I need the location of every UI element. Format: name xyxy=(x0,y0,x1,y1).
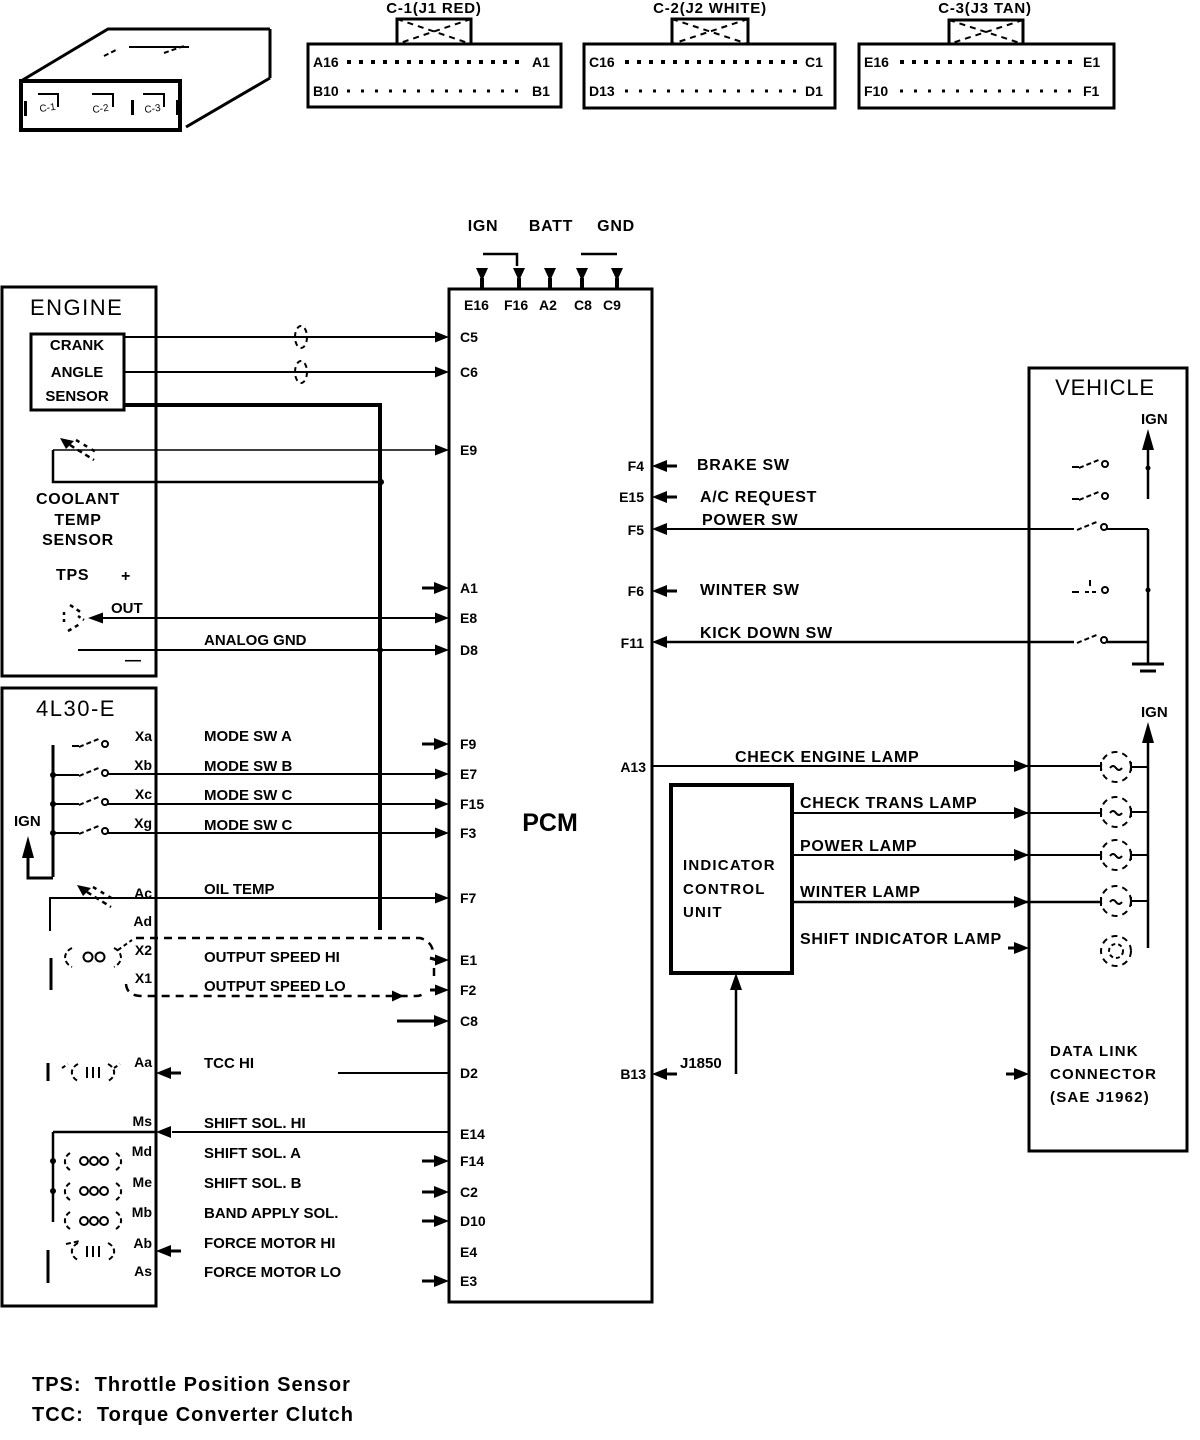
svg-text:POWER LAMP: POWER LAMP xyxy=(800,838,917,855)
svg-text:TEMP: TEMP xyxy=(54,512,101,529)
shift indicator arrow stub xyxy=(1008,942,1029,954)
svg-text:C8: C8 xyxy=(574,297,592,313)
svg-text:CHECK ENGINE LAMP: CHECK ENGINE LAMP xyxy=(735,749,919,766)
indicator control unit box xyxy=(671,785,792,973)
svg-text:Xc: Xc xyxy=(135,786,152,802)
svg-text:(SAE J1962): (SAE J1962) xyxy=(1050,1089,1150,1106)
IGN bridge wire xyxy=(483,254,517,266)
svg-text:OUTPUT SPEED HI: OUTPUT SPEED HI xyxy=(204,949,340,966)
svg-text:D10: D10 xyxy=(460,1213,486,1229)
wire winter lamp to ign xyxy=(1131,900,1148,902)
svg-text:Mb: Mb xyxy=(132,1204,152,1220)
svg-text:Xa: Xa xyxy=(135,728,152,744)
arrowhead power lamp xyxy=(1014,849,1029,861)
shift solenoid A coil xyxy=(50,1153,121,1170)
svg-text:BAND APPLY SOL.: BAND APPLY SOL. xyxy=(204,1205,338,1222)
IGN feed arrow vehicle xyxy=(1142,429,1154,499)
crank angle sensor xyxy=(31,334,124,410)
wire F5 to power switch xyxy=(666,528,1074,530)
dashed shield output speed pair xyxy=(126,938,434,996)
winter lamp xyxy=(1101,886,1131,916)
svg-text:—: — xyxy=(125,652,142,669)
mode switch bus xyxy=(52,745,55,877)
connector C-1 front label xyxy=(24,94,58,116)
svg-text:SHIFT SOL. HI: SHIFT SOL. HI xyxy=(204,1115,306,1132)
svg-text:BRAKE SW: BRAKE SW xyxy=(697,457,790,474)
arrowhead into F7 xyxy=(435,893,449,904)
svg-text:ANGLE: ANGLE xyxy=(51,364,104,381)
connector C-3 front label xyxy=(143,94,179,116)
twisted pair loop on C5 wire xyxy=(295,326,307,348)
svg-text:E7: E7 xyxy=(460,766,477,782)
GND bar xyxy=(581,253,617,256)
module front face xyxy=(21,81,180,130)
wire icu to winter lamp xyxy=(792,901,1101,904)
svg-text:D13: D13 xyxy=(589,83,615,99)
F4 stub arrow xyxy=(652,460,677,472)
svg-text:IGN: IGN xyxy=(1141,704,1168,721)
svg-text:TCC HI: TCC HI xyxy=(204,1055,254,1072)
arrowhead into E8 xyxy=(435,613,449,624)
svg-text:F1: F1 xyxy=(1083,83,1100,99)
small arrow end of shield xyxy=(392,991,404,1002)
svg-text:Md: Md xyxy=(132,1143,152,1159)
svg-text:COOLANT: COOLANT xyxy=(36,491,120,508)
band apply solenoid coil xyxy=(65,1212,121,1229)
4L30-E box xyxy=(2,688,156,1306)
supply pin C8 arrow xyxy=(576,268,588,289)
wire crank sensor to C6 xyxy=(124,371,437,373)
svg-text:POWER SW: POWER SW xyxy=(702,512,798,529)
svg-text:E3: E3 xyxy=(460,1273,477,1289)
TCC solenoid coil xyxy=(48,1063,120,1081)
Ms arrow at box edge xyxy=(156,1126,171,1138)
shield drain wire (thick) xyxy=(124,405,380,930)
wire check trans lamp to ign xyxy=(1131,811,1148,813)
svg-text:A/C REQUEST: A/C REQUEST xyxy=(700,489,817,506)
wire kick down to ground xyxy=(1107,641,1148,644)
svg-text:PCM: PCM xyxy=(522,809,578,837)
svg-text:Ad: Ad xyxy=(133,913,152,929)
check engine lamp xyxy=(1101,752,1131,782)
svg-text:FORCE MOTOR LO: FORCE MOTOR LO xyxy=(204,1264,342,1281)
supply pin A2 arrow xyxy=(544,268,556,289)
E15 stub arrow xyxy=(652,491,677,503)
D10 stub arrow xyxy=(422,1215,449,1227)
PCM box xyxy=(449,289,652,1302)
connector C-1(J1 RED) pinout xyxy=(308,0,561,107)
C2 stub arrow xyxy=(422,1186,449,1198)
junction shield/coolant return xyxy=(378,479,384,485)
svg-text:Ms: Ms xyxy=(133,1113,153,1129)
junction brake ign xyxy=(1146,466,1151,471)
svg-text:ANALOG GND: ANALOG GND xyxy=(204,632,307,649)
wire Xg to F3 xyxy=(108,832,437,834)
svg-text:Ab: Ab xyxy=(133,1235,152,1251)
shift solenoid bus xyxy=(53,1132,156,1222)
wire TPS OUT to E8 xyxy=(102,617,437,619)
svg-text:WINTER LAMP: WINTER LAMP xyxy=(800,884,921,901)
svg-text:A16: A16 xyxy=(313,54,339,70)
svg-text:J1850: J1850 xyxy=(680,1055,722,1072)
supply pin C9 arrow xyxy=(611,268,623,289)
svg-text:C2: C2 xyxy=(460,1184,478,1200)
wire analog gnd to D8 xyxy=(78,649,437,651)
svg-text:F9: F9 xyxy=(460,736,477,752)
svg-text:CONNECTOR: CONNECTOR xyxy=(1050,1066,1157,1083)
coolant temp sensor label xyxy=(36,491,120,549)
arrowhead into F15 xyxy=(435,799,449,810)
F14 stub arrow xyxy=(422,1155,449,1167)
arrowhead into F2 xyxy=(435,985,449,996)
svg-text:TCC: Torque Converter Clutch: TCC: Torque Converter Clutch xyxy=(32,1404,354,1426)
svg-text:SENSOR: SENSOR xyxy=(42,532,114,549)
svg-text:IGN: IGN xyxy=(468,218,499,235)
svg-text:MODE SW C: MODE SW C xyxy=(204,817,292,834)
svg-text:X2: X2 xyxy=(135,942,152,958)
svg-text:F11: F11 xyxy=(621,635,645,651)
svg-text:INDICATOR: INDICATOR xyxy=(683,857,776,874)
svg-text:DATA LINK: DATA LINK xyxy=(1050,1043,1139,1060)
junction shield/analog gnd xyxy=(377,647,383,653)
stem E1 xyxy=(430,958,437,960)
DATA LINK CONNECTOR label xyxy=(1050,1043,1157,1106)
svg-text:C-2(J2 WHITE): C-2(J2 WHITE) xyxy=(653,0,767,17)
VEHICLE box xyxy=(1029,368,1187,1151)
svg-text:F16: F16 xyxy=(504,297,528,313)
svg-text:As: As xyxy=(134,1263,152,1279)
svg-text:VEHICLE: VEHICLE xyxy=(1055,375,1155,400)
Aa arrow at box edge xyxy=(156,1067,181,1079)
svg-text:MODE SW A: MODE SW A xyxy=(204,728,292,745)
svg-text:F7: F7 xyxy=(460,890,477,906)
F11 arrowhead xyxy=(652,636,667,648)
svg-text:C16: C16 xyxy=(589,54,615,70)
svg-text:MODE SW C: MODE SW C xyxy=(204,787,292,804)
D2 wire from TCC xyxy=(338,1072,449,1074)
svg-text:GND: GND xyxy=(597,218,635,235)
F6 stub arrow xyxy=(652,585,677,597)
shift solenoid B coil xyxy=(50,1183,121,1200)
left pin labels xyxy=(460,329,486,1289)
svg-text:C9: C9 xyxy=(603,297,621,313)
svg-text:B10: B10 xyxy=(313,83,339,99)
arrowhead into E1 xyxy=(435,955,449,966)
svg-text:E8: E8 xyxy=(460,610,477,626)
svg-text:OUT: OUT xyxy=(111,600,143,617)
mode switch Xg xyxy=(50,825,108,836)
right pin labels xyxy=(619,458,646,1082)
svg-text:IGN: IGN xyxy=(1141,411,1168,428)
svg-text:E15: E15 xyxy=(619,489,644,505)
arrowhead into C5 xyxy=(435,332,449,343)
oil temp sensor thermistor xyxy=(77,885,113,907)
svg-text:OUTPUT SPEED LO: OUTPUT SPEED LO xyxy=(204,978,346,995)
C8 stub wire xyxy=(397,1015,449,1027)
svg-text:4L30-E: 4L30-E xyxy=(36,696,116,721)
svg-text:X1: X1 xyxy=(135,970,152,986)
svg-text:UNIT: UNIT xyxy=(683,904,723,921)
svg-text:C-2: C-2 xyxy=(92,103,110,116)
svg-text:A13: A13 xyxy=(620,759,646,775)
A1 stub arrow xyxy=(422,582,449,594)
svg-text:E4: E4 xyxy=(460,1244,477,1260)
junction winter ign xyxy=(1146,588,1151,593)
winter switch xyxy=(1072,580,1108,593)
svg-text:F15: F15 xyxy=(460,796,484,812)
svg-text:BATT: BATT xyxy=(529,218,573,235)
mode switch Xc xyxy=(50,796,108,807)
power lamp xyxy=(1101,840,1131,870)
ENGINE box xyxy=(2,287,156,676)
svg-text:WINTER SW: WINTER SW xyxy=(700,582,800,599)
svg-text:ENGINE: ENGINE xyxy=(30,295,123,320)
arrowhead OUT toward TPS xyxy=(88,613,103,624)
svg-text:B1: B1 xyxy=(532,83,550,99)
svg-text:SENSOR: SENSOR xyxy=(45,388,109,405)
svg-text:E16: E16 xyxy=(464,297,489,313)
coolant sensor return wire xyxy=(53,450,382,482)
IGN arrow 4L30E xyxy=(22,836,53,878)
power switch xyxy=(1077,521,1107,530)
coolant temp sensor thermistor xyxy=(60,438,96,460)
svg-text:F10: F10 xyxy=(864,83,888,99)
svg-text:C1: C1 xyxy=(805,54,823,70)
shift indicator lamp xyxy=(1101,936,1131,966)
svg-text:Me: Me xyxy=(133,1174,153,1190)
F9 stub arrow xyxy=(422,738,449,750)
ac request switch xyxy=(1072,491,1108,500)
svg-text:Xb: Xb xyxy=(134,757,152,773)
force motor coil xyxy=(48,1241,114,1283)
connector C-3(J3 TAN) pinout xyxy=(859,0,1114,108)
arrowhead into C6 xyxy=(435,367,449,378)
module top face xyxy=(21,29,270,81)
stem F2 xyxy=(430,989,437,992)
wire coolant sensor to E9 xyxy=(53,449,437,451)
svg-text:OIL TEMP: OIL TEMP xyxy=(204,881,275,898)
svg-text:MODE SW B: MODE SW B xyxy=(204,758,292,775)
kick down switch xyxy=(1077,634,1107,643)
svg-text:A2: A2 xyxy=(539,297,557,313)
supply pin E16 arrow xyxy=(476,268,488,289)
module top lid marking xyxy=(129,46,189,48)
svg-text:F4: F4 xyxy=(628,458,645,474)
module right face xyxy=(186,29,270,127)
check trans lamp xyxy=(1101,797,1131,827)
svg-text:IGN: IGN xyxy=(14,813,41,830)
svg-text:C6: C6 xyxy=(460,364,478,380)
mode switch Xb xyxy=(50,767,108,778)
svg-text:E1: E1 xyxy=(1083,54,1100,70)
arrowhead into D8 xyxy=(435,645,449,656)
svg-text:TPS: TPS xyxy=(56,567,89,584)
connector C-2 front label xyxy=(92,94,134,116)
F5 arrowhead xyxy=(652,523,667,535)
svg-text:E16: E16 xyxy=(864,54,889,70)
arrowhead into E9 xyxy=(435,445,449,456)
svg-text:+: + xyxy=(121,568,131,585)
E14 wire shift sol hi xyxy=(172,1131,449,1133)
svg-text:F3: F3 xyxy=(460,825,477,841)
wire F11 to kick down switch xyxy=(666,641,1074,644)
arrowhead into F3 xyxy=(435,828,449,839)
twisted pair loop on C6 wire xyxy=(295,361,307,383)
ign line power to ground xyxy=(1147,529,1150,663)
wire A13 to check engine lamp xyxy=(652,765,1101,767)
svg-text:C-3: C-3 xyxy=(144,103,162,116)
arrowhead winter lamp xyxy=(1014,896,1029,908)
J1850 wire to icu xyxy=(730,973,742,1074)
svg-text:SHIFT INDICATOR LAMP: SHIFT INDICATOR LAMP xyxy=(800,931,1002,948)
svg-text:CHECK TRANS LAMP: CHECK TRANS LAMP xyxy=(800,795,977,812)
wire icu to check trans lamp xyxy=(792,812,1101,814)
svg-text:E1: E1 xyxy=(460,952,477,968)
svg-text:KICK DOWN SW: KICK DOWN SW xyxy=(700,625,833,642)
svg-text:B13: B13 xyxy=(620,1066,646,1082)
svg-text:F6: F6 xyxy=(628,583,645,599)
svg-text:D1: D1 xyxy=(805,83,823,99)
svg-text:C8: C8 xyxy=(460,1013,478,1029)
E3 stub arrow xyxy=(422,1275,449,1287)
connector C-2(J2 WHITE) pinout xyxy=(584,0,835,108)
svg-text:CRANK: CRANK xyxy=(50,337,104,354)
svg-text:C5: C5 xyxy=(460,329,478,345)
wire crank sensor to C5 xyxy=(124,336,437,338)
wire Xc to F15 xyxy=(108,803,437,805)
mode switch Xa xyxy=(72,738,108,747)
Ab arrow at box edge xyxy=(156,1245,181,1257)
svg-text:Xg: Xg xyxy=(134,815,152,831)
svg-text:A1: A1 xyxy=(532,54,550,70)
DLC arrow stub xyxy=(1006,1068,1029,1080)
TPS wiper arrow xyxy=(64,605,84,631)
PCM module 3D view xyxy=(21,29,270,130)
svg-text:F5: F5 xyxy=(628,522,645,538)
svg-text:E14: E14 xyxy=(460,1126,485,1142)
ground symbol xyxy=(1132,664,1164,671)
svg-text:CONTROL: CONTROL xyxy=(683,881,766,898)
IGN feed arrow lamps xyxy=(1142,722,1154,948)
arrowhead check trans xyxy=(1014,807,1029,819)
svg-text:C-1(J1 RED): C-1(J1 RED) xyxy=(386,0,481,17)
output speed sensor coil xyxy=(51,940,132,990)
wire icu to power lamp xyxy=(792,854,1101,856)
svg-text:C-1: C-1 xyxy=(39,102,57,115)
wire check engine lamp to ign xyxy=(1131,766,1148,768)
svg-text:SHIFT SOL. B: SHIFT SOL. B xyxy=(204,1175,302,1192)
brake switch xyxy=(1072,459,1108,468)
svg-text:D2: D2 xyxy=(460,1065,478,1081)
svg-text:E9: E9 xyxy=(460,442,477,458)
svg-text:D8: D8 xyxy=(460,642,478,658)
svg-text:F2: F2 xyxy=(460,982,477,998)
wire power lamp to ign xyxy=(1131,854,1148,856)
svg-text:F14: F14 xyxy=(460,1153,484,1169)
svg-text:C-3(J3 TAN): C-3(J3 TAN) xyxy=(938,0,1032,17)
svg-text:FORCE MOTOR HI: FORCE MOTOR HI xyxy=(204,1235,335,1252)
wire oil temp to F7 xyxy=(50,898,437,931)
svg-text:Aa: Aa xyxy=(134,1054,152,1070)
svg-text:TPS: Throttle Position Sensor: TPS: Throttle Position Sensor xyxy=(32,1374,351,1396)
wire Xb to E7 xyxy=(108,773,437,775)
B13 stub arrow xyxy=(652,1068,677,1080)
supply pin F16 arrow xyxy=(513,268,525,289)
arrowhead into E7 xyxy=(435,769,449,780)
svg-text:SHIFT SOL. A: SHIFT SOL. A xyxy=(204,1145,301,1162)
arrowhead check engine xyxy=(1014,760,1029,772)
wire power switch to ign line xyxy=(1107,528,1148,530)
svg-text:A1: A1 xyxy=(460,580,478,596)
top pin labels xyxy=(464,297,621,313)
